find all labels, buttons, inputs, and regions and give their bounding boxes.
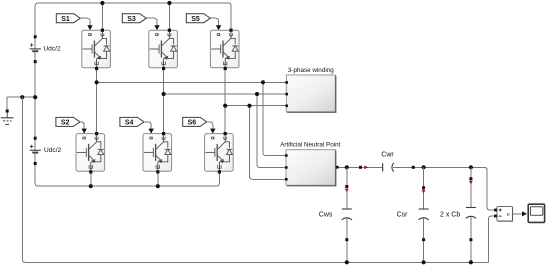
wire: phase C feed to winding: [225, 105, 286, 107]
wire: S2 gate signal: [80, 122, 84, 129]
capacitor Cws (shunt branch): [319, 167, 352, 264]
svg-text:S3: S3: [127, 16, 136, 23]
node: B2 emitter junction: [156, 184, 160, 188]
node: midpoint / bottom-bus riser junction: [20, 95, 24, 99]
wire: voltmeter output to scope: [513, 213, 523, 215]
svg-text:Udc/2: Udc/2: [44, 147, 62, 154]
node: 2xCb tap on neutral line: [469, 165, 473, 169]
node: phase B tap: [162, 92, 166, 96]
svg-text:Artificial Neutral Point: Artificial Neutral Point: [280, 142, 340, 149]
ground: [1, 97, 14, 124]
wire: phase A midpoint (T1 emitter to B1 collector): [96, 69, 98, 133]
wire: phase C midpoint (T3 emitter to B3 collector): [224, 69, 226, 133]
IGBT/Diode T3 (S5, phase C upper): [210, 29, 239, 71]
node: midpoint / DC rail junction: [33, 95, 37, 99]
scope (bearing voltage display): [528, 204, 544, 222]
tag S1: [56, 14, 80, 23]
tag S2: [56, 117, 80, 126]
wire: phase A feed to winding: [97, 81, 287, 83]
capacitor Csr (shunt branch): [397, 167, 429, 264]
wire: phase B branch to neutral-point block: [257, 94, 286, 168]
wire: midpoint stub to ground: [7, 96, 35, 98]
node: phase C tap: [223, 104, 227, 108]
tag S5: [186, 14, 210, 23]
arrowhead: S6 gate into B3: [210, 129, 215, 134]
wire: S5 gate signal: [210, 18, 218, 25]
voltage source Udc/2 (upper): [30, 35, 61, 63]
arrowhead: S5 gate into T3: [216, 25, 221, 30]
tag S4: [120, 117, 144, 126]
node: B1 emitter junction: [89, 184, 93, 188]
svg-text:Cwr: Cwr: [381, 152, 394, 159]
svg-text:S1: S1: [61, 16, 70, 23]
wire: DC-link midpoint rail between the two Udc/2 sources: [34, 62, 36, 139]
IGBT/Diode T1 (S1, phase A upper): [82, 29, 111, 71]
subsystem: Artificial Neutral Point: [280, 142, 340, 186]
arrowhead: S3 gate into T2: [154, 25, 159, 30]
wire: bottom bus to voltmeter - input: [489, 216, 495, 262]
wire: B2 emitter to -DC bus: [157, 173, 159, 186]
svg-text:S4: S4: [125, 120, 134, 127]
node: top bus / T2 collector junction: [167, 1, 171, 5]
IGBT/Diode B2 (S4, phase B lower): [143, 132, 172, 174]
svg-text:S6: S6: [188, 120, 197, 127]
node: phase B branch junction: [255, 92, 259, 96]
node: Csr tap on neutral line: [422, 165, 426, 169]
wire: phase C branch to neutral-point block: [250, 106, 287, 180]
wire: -DC emitter bus of lower IGBT row: [35, 164, 219, 187]
capacitor Cwr (series branch): [359, 152, 415, 172]
wire: +DC top bus from Udc/2 top to S5-leg collector: [35, 3, 231, 37]
wire: S6 gate signal: [207, 122, 213, 129]
node: Cws tap on neutral line: [345, 165, 349, 169]
node: top bus / T1 collector junction: [100, 1, 104, 5]
node: phase A branch junction: [261, 80, 265, 84]
voltmeter U1 (Voltage Measurement v): [494, 207, 512, 222]
svg-text:3-phase winding: 3-phase winding: [288, 67, 334, 74]
wire: neutral point output to Cwr left plate: [335, 166, 382, 168]
wire: T1 collector drop: [101, 3, 103, 30]
arrowhead: S2 gate into B1: [82, 129, 87, 134]
svg-text:Cws: Cws: [319, 211, 333, 218]
arrowhead: S1 gate into T1: [87, 25, 92, 30]
wire: phase B feed to winding: [164, 93, 287, 95]
subsystem: 3-phase winding: [285, 67, 335, 112]
wire: T2 collector drop: [168, 3, 170, 30]
wire: phase B midpoint (T2 emitter to B2 collector): [163, 69, 165, 133]
capacitor 2 x Cb (shunt branch): [440, 167, 476, 264]
tag S3: [122, 14, 146, 23]
wire: S3 gate signal: [146, 18, 157, 25]
wire: Cwr right plate to voltmeter + input: [393, 167, 494, 210]
svg-text:Udc/2: Udc/2: [43, 45, 61, 52]
wire: zero-volt bottom bus: [22, 97, 488, 262]
wire: B1 emitter to -DC bus: [90, 173, 92, 186]
IGBT/Diode T2 (S3, phase B upper): [149, 29, 178, 71]
svg-text:Csr: Csr: [397, 211, 409, 218]
svg-text:S5: S5: [191, 16, 200, 23]
IGBT/Diode B3 (S6, phase C lower): [205, 132, 234, 174]
svg-text:2 x Cb: 2 x Cb: [440, 211, 460, 218]
svg-text:S2: S2: [61, 120, 70, 127]
wire: S1 gate signal: [80, 18, 90, 25]
IGBT/Diode B1 (S2, phase A lower): [76, 132, 105, 174]
tag S6: [183, 117, 207, 126]
wire: S4 gate signal: [144, 122, 151, 129]
voltage source Udc/2 (lower): [30, 137, 62, 165]
node: phase C branch junction: [247, 104, 251, 108]
arrowhead: S4 gate into B2: [149, 129, 154, 134]
arrowhead: scope input: [522, 211, 527, 216]
wire: phase A branch to neutral-point block: [263, 82, 286, 155]
node: phase A tap: [95, 80, 99, 84]
